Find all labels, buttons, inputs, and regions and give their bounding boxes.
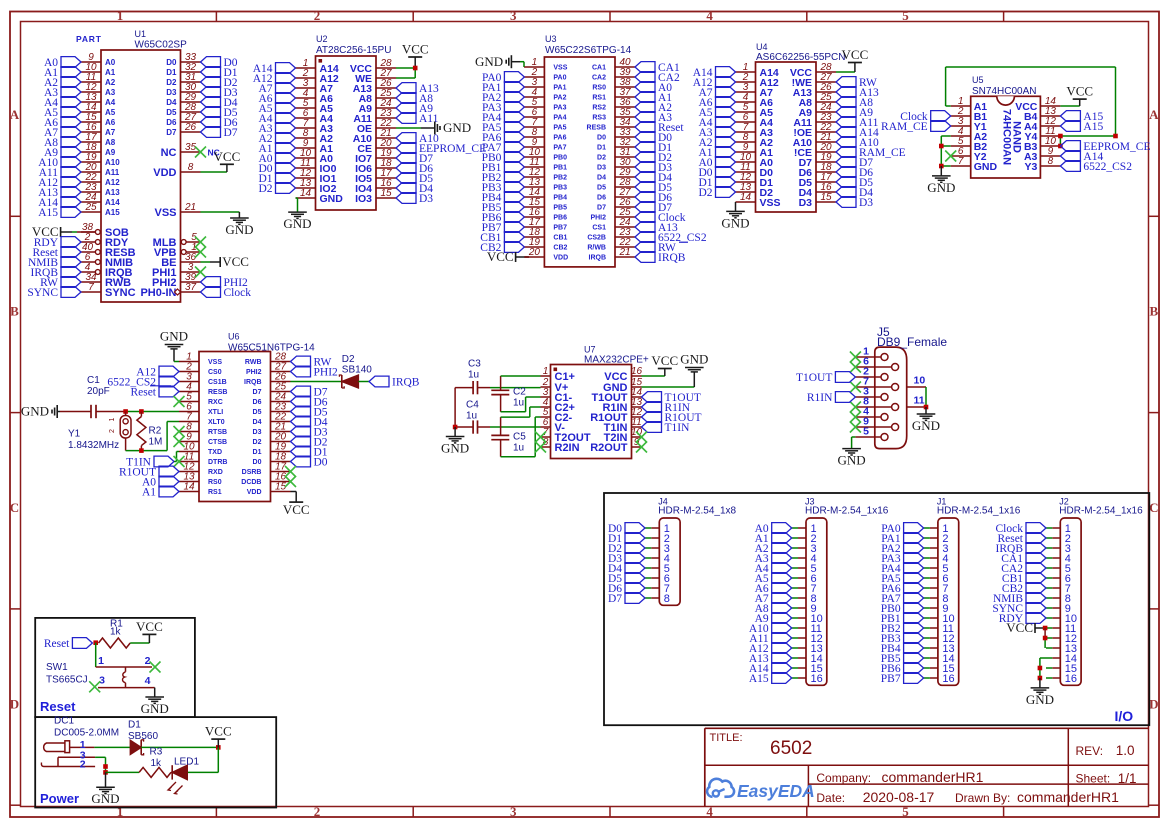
svg-text:VDD: VDD: [553, 255, 568, 262]
IC U6 W65C51N6TPG-14 ACIA: [179, 332, 315, 502]
svg-text:8: 8: [664, 593, 670, 605]
node A9 (U2 pin 24): [396, 103, 433, 116]
node A15 (J3 pin 16): [749, 673, 792, 686]
svg-text:PB0: PB0: [553, 155, 567, 162]
svg-text:D4: D4: [166, 98, 177, 107]
svg-text:GND: GND: [91, 791, 119, 806]
node A5 (U4 pin 5): [698, 107, 735, 120]
node D3 (U1 pin 30): [201, 87, 238, 100]
no-connect X SW1 pin 3: [89, 681, 100, 692]
node A15 (U5 A4 pin 12): [1060, 121, 1103, 134]
node A14 (J3 pin 15): [749, 663, 792, 676]
IC U5 SN74HC00AN quad NAND: [951, 75, 1061, 178]
svg-text:DTRB: DTRB: [208, 459, 227, 466]
svg-text:RS0: RS0: [592, 85, 606, 92]
svg-text:CA2: CA2: [592, 75, 606, 82]
svg-text:D3: D3: [799, 197, 813, 209]
node A10 (U2 pin 21): [396, 133, 439, 146]
capacitor C4 1u: [455, 400, 490, 434]
node A4 (U1 pin 13): [44, 97, 81, 110]
wire U7 C2- pin 5 to C5 bottom: [501, 417, 541, 457]
svg-text:5: 5: [902, 8, 909, 23]
svg-text:B: B: [1149, 304, 1158, 319]
node RW (U3 pin 22): [635, 242, 688, 255]
svg-text:D: D: [10, 697, 19, 712]
connector J5 DB9_Female: [855, 325, 947, 449]
svg-text:T1OUT: T1OUT: [796, 372, 832, 384]
node CA2 (U3 pin 39): [635, 72, 680, 85]
node RW (U1 pin 34): [40, 277, 81, 290]
wire U7 C2+ pin 4 to C5 top: [501, 407, 541, 417]
svg-text:VCC: VCC: [136, 619, 163, 634]
node PB2 (J1 pin 11): [881, 623, 924, 636]
svg-text:CS1: CS1: [592, 225, 606, 232]
Reset section box: [35, 618, 195, 717]
wire U7 V- pin 6 to C4: [490, 426, 541, 428]
svg-text:5: 5: [863, 426, 869, 438]
node D0 (U6 pin 18): [291, 456, 328, 469]
svg-text:CS1B: CS1B: [208, 379, 227, 386]
wire J2 VCC pins 11-13: [1043, 628, 1048, 648]
node A13 (U1 pin 23): [38, 187, 81, 200]
svg-text:D1: D1: [166, 68, 177, 77]
svg-text:20: 20: [528, 247, 541, 258]
node A14 (U4 pin 1): [693, 67, 736, 80]
node A2 (U4 pin 8): [698, 137, 735, 150]
node D0 (U1 pin 33): [201, 57, 238, 70]
node A4 (J3 pin 5): [755, 563, 792, 576]
wire U2 VCC pin 28 to VCC: [396, 67, 415, 69]
svg-text:RESB: RESB: [587, 125, 606, 132]
svg-text:D5: D5: [253, 409, 262, 416]
svg-text:XTLI: XTLI: [208, 409, 223, 416]
svg-text:1.0: 1.0: [1116, 743, 1135, 758]
svg-text:D4: D4: [597, 175, 606, 182]
node A12 (U2 pin 2): [253, 73, 296, 86]
svg-text:PB2: PB2: [553, 175, 567, 182]
node IRQB (U3 pin 21): [635, 252, 686, 265]
svg-text:GND: GND: [721, 215, 749, 230]
svg-text:1: 1: [109, 417, 116, 421]
node A14 (U4 pin 22): [836, 127, 879, 140]
node A1 (U3 pin 37): [635, 92, 672, 105]
node PB4 (U3 pin 14): [482, 192, 525, 205]
node Clock (J2 pin 1): [996, 523, 1046, 536]
svg-text:HDR-M-2.54_1x16: HDR-M-2.54_1x16: [1059, 506, 1143, 517]
no-connect X U7 T2OUT pin 7: [535, 432, 546, 443]
svg-text:GND: GND: [160, 329, 188, 344]
svg-text:CS2B: CS2B: [587, 235, 606, 242]
svg-text:NC: NC: [161, 147, 177, 159]
svg-text:15: 15: [380, 188, 392, 199]
svg-text:2: 2: [109, 429, 116, 433]
svg-text:SN74HC00AN: SN74HC00AN: [972, 86, 1036, 97]
node A11 (U2 pin 23): [396, 113, 439, 126]
svg-text:GND: GND: [21, 404, 49, 419]
EasyEDA logo: [707, 779, 815, 801]
svg-text:SW1: SW1: [46, 662, 68, 673]
node PA2 (U3 pin 4): [482, 92, 524, 105]
node A11 (J3 pin 12): [749, 633, 791, 646]
svg-text:commanderHR1: commanderHR1: [1017, 789, 1119, 805]
node D5 (U6 pin 23): [291, 406, 328, 419]
svg-text:NAND: NAND: [1011, 121, 1023, 153]
svg-text:IRQB: IRQB: [589, 255, 607, 262]
ground below U5: [927, 166, 955, 195]
wire C3/C4 common to ground: [453, 388, 458, 430]
node RAM_CE (U5 Y1 pin 3): [881, 121, 951, 134]
VCC power port at J2 pins 11-13: [1006, 620, 1047, 635]
svg-text:RXD: RXD: [208, 469, 223, 476]
node A14 (U1 pin 24): [38, 197, 81, 210]
svg-text:A5: A5: [105, 108, 116, 117]
svg-text:37: 37: [185, 282, 197, 293]
svg-text:U7: U7: [584, 345, 596, 355]
svg-text:EasyEDA: EasyEDA: [737, 781, 815, 801]
node A10 (U4 pin 21): [836, 137, 879, 150]
node D7 (U2 pin 19): [396, 153, 433, 166]
resistor R1 1k: [99, 619, 131, 649]
svg-text:GND: GND: [320, 193, 344, 205]
node A10 (U1 pin 19): [38, 157, 81, 170]
svg-text:21: 21: [184, 202, 196, 213]
svg-text:1/1: 1/1: [1118, 771, 1137, 786]
svg-text:D6: D6: [597, 195, 606, 202]
junction U5 Y4 pin 11 to B3 pin 10: [1058, 134, 1063, 149]
svg-text:16: 16: [1065, 673, 1077, 685]
connector J1 HDR-M-2.54_1x16: [924, 497, 1021, 686]
node PA3 (U3 pin 5): [482, 102, 524, 115]
svg-text:A1: A1: [142, 487, 156, 499]
svg-text:DB9_Female: DB9_Female: [877, 335, 947, 349]
capacitor C2 1u: [491, 376, 526, 412]
node T1IN (U7 pin 11): [642, 422, 691, 435]
node D1 (J4 pin 2): [608, 533, 645, 546]
wire U7 C1- pin 3 to C2 bottom: [501, 397, 541, 412]
svg-text:Y1: Y1: [68, 429, 81, 440]
svg-text:RAM_CE: RAM_CE: [881, 121, 928, 133]
svg-text:10: 10: [914, 375, 926, 387]
svg-text:D3: D3: [253, 429, 262, 436]
ground at U2 GND pin 14: [283, 198, 311, 231]
node Reset (J2 pin 2): [997, 533, 1046, 546]
node D1 (U2 pin 12): [258, 173, 295, 186]
title block: [705, 728, 1149, 806]
node T1OUT (U7 pin 14): [642, 392, 701, 405]
node PA0 (U3 pin 2): [482, 72, 524, 85]
svg-text:PB1: PB1: [553, 165, 567, 172]
svg-text:25: 25: [84, 202, 97, 213]
no-connect X J5 pin 1: [850, 352, 861, 363]
node A13 (U3 pin 24): [635, 222, 678, 235]
svg-text:PHI2: PHI2: [246, 369, 262, 376]
node Clock (U5 B1 pin 2): [900, 111, 950, 124]
svg-text:R/WB: R/WB: [587, 245, 606, 252]
VCC power port at U1 BE pin 36: [201, 254, 249, 269]
svg-text:4: 4: [145, 675, 151, 687]
svg-text:PHI2: PHI2: [590, 215, 606, 222]
svg-text:W65C22S6TPG-14: W65C22S6TPG-14: [545, 45, 632, 56]
node RW (U6 RWB pin 28): [291, 356, 332, 369]
VCC power symbol at U5 pin 14: [1060, 84, 1093, 106]
IC U7 MAX232CPE+ RS-232 transceiver: [541, 345, 649, 459]
svg-text:1: 1: [98, 655, 104, 667]
svg-text:RTSB: RTSB: [208, 429, 227, 436]
svg-text:PH0-IN: PH0-IN: [140, 287, 176, 299]
node D5 (U1 pin 28): [201, 107, 238, 120]
node PA0 (J1 pin 1): [881, 523, 923, 536]
IC U3 W65C22S6TPG-14 VIA: [524, 34, 635, 267]
node A6 (U1 pin 15): [44, 117, 81, 130]
svg-text:A1: A1: [105, 68, 116, 77]
node A9 (U4 pin 24): [836, 107, 873, 120]
node D2 (U3 pin 31): [635, 152, 672, 165]
node PB1 (U3 pin 11): [482, 162, 525, 175]
node D4 (U2 pin 16): [396, 183, 433, 196]
svg-text:1u: 1u: [513, 443, 524, 454]
svg-text:14: 14: [300, 188, 312, 199]
ground at J5 pins 10/11: [912, 407, 940, 433]
node PA6 (J1 pin 7): [881, 583, 923, 596]
svg-text:A8: A8: [105, 138, 116, 147]
svg-text:PA1: PA1: [553, 85, 566, 92]
node PA1 (U3 pin 3): [482, 82, 524, 95]
svg-text:GND: GND: [283, 216, 311, 231]
svg-text:A15: A15: [1083, 121, 1103, 133]
svg-text:C5: C5: [513, 432, 526, 443]
no-connect X SW1 pin 2: [150, 662, 161, 673]
svg-text:A7: A7: [105, 128, 116, 137]
svg-text:GND: GND: [475, 54, 503, 69]
node A3 (U3 pin 35): [635, 112, 672, 125]
node PB1 (J1 pin 10): [881, 613, 924, 626]
node PB3 (U3 pin 13): [482, 182, 525, 195]
node D5 (U4 pin 17): [836, 177, 873, 190]
svg-text:RXC: RXC: [208, 399, 223, 406]
IC U4 AS6C62256-55PCN SRAM: [736, 42, 846, 212]
svg-text:26: 26: [184, 122, 197, 133]
node D6 (U1 pin 27): [201, 117, 238, 130]
svg-text:VCC: VCC: [402, 42, 429, 57]
node D4 (U3 pin 29): [635, 172, 672, 185]
node D2 (U2 pin 13): [258, 183, 295, 196]
node A6 (J3 pin 7): [755, 583, 792, 596]
node A7 (U4 pin 3): [698, 87, 735, 100]
svg-text:RS3: RS3: [592, 115, 606, 122]
ground in Reset box: [141, 697, 169, 716]
no-connect X J5 pin 7: [850, 382, 861, 393]
node D7 (J4 pin 8): [608, 593, 645, 606]
svg-text:A4: A4: [105, 98, 116, 107]
node PA4 (J1 pin 5): [881, 563, 923, 576]
no-connect X U6 DCDB pin 16: [285, 476, 296, 487]
svg-text:1u: 1u: [513, 398, 524, 409]
node D4 (U6 pin 22): [291, 416, 328, 429]
svg-text:PB7: PB7: [881, 673, 901, 685]
svg-text:A15: A15: [38, 207, 58, 219]
node D6 (U6 pin 24): [291, 396, 328, 409]
node A13 (U2 pin 26): [396, 83, 439, 96]
ground at U1 VSS pin 21: [201, 212, 254, 237]
svg-text:R2: R2: [149, 426, 162, 437]
Power section box: [35, 717, 276, 807]
node PB0 (U3 pin 10): [482, 152, 525, 165]
svg-text:TITLE:: TITLE:: [710, 732, 743, 744]
svg-text:VDD: VDD: [247, 489, 262, 496]
svg-text:R2IN: R2IN: [555, 442, 580, 454]
node Reset (U6 RESB pin 4): [130, 386, 179, 399]
svg-text:PB5: PB5: [553, 205, 567, 212]
wire Reset node to SW1 pin 1: [93, 640, 98, 667]
svg-text:A11: A11: [105, 168, 120, 177]
node PA2 (J1 pin 3): [881, 543, 923, 556]
node R1OUT (U6 RXD pin 12): [119, 466, 179, 479]
node D6 (J4 pin 7): [608, 583, 645, 596]
svg-text:DCDB: DCDB: [241, 479, 261, 486]
svg-text:D1: D1: [597, 145, 606, 152]
svg-text:R2OUT: R2OUT: [590, 442, 628, 454]
svg-text:PB7: PB7: [553, 225, 567, 232]
node CB1 (J2 pin 6): [1002, 573, 1046, 586]
VCC power port at U1 SOB pin 38: [32, 224, 95, 239]
svg-text:RWB: RWB: [245, 359, 262, 366]
svg-text:GND: GND: [680, 352, 708, 367]
node RDY (J2 pin 10): [999, 613, 1046, 626]
svg-text:Reset: Reset: [40, 699, 76, 714]
svg-text:LED1: LED1: [174, 757, 199, 768]
node PA7 (J1 pin 8): [881, 593, 923, 606]
node A6 (U4 pin 4): [698, 97, 735, 110]
svg-text:D2: D2: [253, 439, 262, 446]
node A4 (U4 pin 6): [698, 117, 735, 130]
node PB3 (J1 pin 12): [881, 633, 924, 646]
node A12 (J3 pin 13): [749, 643, 792, 656]
node D0 (J4 pin 1): [608, 523, 645, 536]
node RAM_CE (U4 pin 20): [836, 147, 906, 160]
svg-text:A6: A6: [105, 118, 116, 127]
node A13 (U4 pin 26): [836, 87, 879, 100]
svg-text:20pF: 20pF: [87, 386, 110, 397]
svg-text:A14: A14: [105, 198, 120, 207]
ground left of C1: [21, 404, 60, 419]
node SYNC (U1 pin 7): [27, 287, 81, 300]
no-connect X U1 MLB pin 5: [195, 237, 206, 248]
node Clock (U3 pin 25): [635, 212, 686, 225]
svg-text:1.8432MHz: 1.8432MHz: [68, 440, 119, 451]
svg-text:RESB: RESB: [208, 389, 227, 396]
node A2 (U1 pin 11): [44, 77, 81, 90]
node A3 (U2 pin 7): [258, 123, 295, 136]
ground at U3 VSS pin 1: [475, 54, 524, 69]
node RW (U4 pin 27): [836, 77, 877, 90]
svg-text:DC005-2.0MM: DC005-2.0MM: [54, 728, 119, 739]
svg-text:GND: GND: [225, 222, 253, 237]
svg-text:D7: D7: [253, 389, 262, 396]
node IRQB (U6 IRQB pin 26 via D2): [369, 376, 420, 389]
svg-text:D2: D2: [698, 187, 712, 199]
svg-text:DSRB: DSRB: [242, 469, 262, 476]
svg-text:PA5: PA5: [553, 125, 566, 132]
node PA7 (U3 pin 9): [482, 142, 524, 155]
svg-text:EEPROM_CE: EEPROM_CE: [419, 143, 486, 155]
node A8 (J3 pin 9): [755, 603, 792, 616]
svg-text:4: 4: [706, 8, 713, 23]
svg-text:21: 21: [618, 247, 630, 258]
node D1 (U1 pin 32): [201, 67, 238, 80]
svg-text:PA6: PA6: [553, 135, 566, 142]
no-connect X U6 RXC pin 5: [174, 396, 185, 407]
svg-text:REV:: REV:: [1076, 744, 1104, 758]
node D2 (U1 pin 31): [201, 77, 238, 90]
svg-text:Clock: Clock: [224, 287, 252, 299]
node D2 (U6 pin 20): [291, 436, 328, 449]
svg-text:IRQB: IRQB: [658, 252, 686, 264]
node A15 (U1 pin 25): [38, 207, 81, 220]
node PB4 (J1 pin 13): [881, 643, 924, 656]
svg-text:XLT0: XLT0: [208, 419, 225, 426]
svg-text:GND: GND: [927, 180, 955, 195]
svg-text:GND: GND: [443, 120, 471, 135]
node T1IN (U6 TXD pin 10): [126, 452, 179, 469]
node PB5 (J1 pin 14): [881, 653, 924, 666]
connector J3 HDR-M-2.54_1x16: [792, 497, 889, 686]
node 6522_CS2 (U5 Y3 pin 8): [1060, 161, 1132, 174]
svg-text:D0: D0: [166, 58, 177, 67]
svg-text:1: 1: [117, 8, 124, 23]
node CB2 (U3 pin 19): [480, 242, 524, 255]
node EEPROM_CE (U2 CE pin 20): [396, 143, 486, 156]
node D3 (U6 pin 21): [291, 426, 328, 439]
svg-text:PA2: PA2: [553, 95, 566, 102]
node D4 (J4 pin 5): [608, 563, 645, 576]
svg-text:D2: D2: [258, 183, 272, 195]
node A1 (U6 RS1 pin 14): [142, 486, 179, 499]
svg-text:A13: A13: [105, 188, 120, 197]
node PB6 (U3 pin 16): [482, 212, 525, 225]
node D7 (U4 pin 19): [836, 157, 873, 170]
svg-text:3: 3: [99, 674, 105, 686]
wire crystal bottom rail to U6 XLT0 pin 7: [126, 422, 179, 453]
svg-text:D5: D5: [597, 185, 606, 192]
ground at J5 pin 5: [838, 437, 866, 468]
VCC power symbol at U4 pin 28: [836, 47, 868, 72]
svg-text:A10: A10: [105, 158, 120, 167]
node PB0 (J1 pin 9): [881, 603, 924, 616]
node A1 (J3 pin 2): [755, 533, 792, 546]
node A8 (U2 pin 25): [396, 93, 433, 106]
resistor R3 1k: [139, 747, 171, 778]
node R1IN (U7 pin 13): [642, 402, 691, 415]
node A4 (U2 pin 6): [258, 113, 295, 126]
node PA6 (U3 pin 8): [482, 132, 524, 145]
svg-text:VCC: VCC: [487, 249, 514, 264]
svg-text:15: 15: [820, 192, 832, 203]
svg-text:2: 2: [145, 655, 151, 667]
no-connect X U7 R2OUT pin 9: [636, 442, 647, 453]
svg-text:HDR-M-2.54_1x16: HDR-M-2.54_1x16: [937, 506, 1021, 517]
svg-text:8: 8: [1048, 156, 1054, 167]
svg-text:D2: D2: [166, 78, 177, 87]
node D4 (U1 pin 29): [201, 97, 238, 110]
node D3 (U4 pin 15): [836, 197, 873, 210]
node A3 (U4 pin 7): [698, 127, 735, 140]
svg-text:VCC: VCC: [222, 254, 249, 269]
node A11 (U1 pin 20): [39, 167, 81, 180]
svg-text:15: 15: [275, 482, 287, 493]
node EEPROM_CE (U5 B3 pin 10): [1060, 141, 1150, 154]
svg-text:D0: D0: [314, 457, 328, 469]
svg-text:GND: GND: [1026, 692, 1054, 707]
